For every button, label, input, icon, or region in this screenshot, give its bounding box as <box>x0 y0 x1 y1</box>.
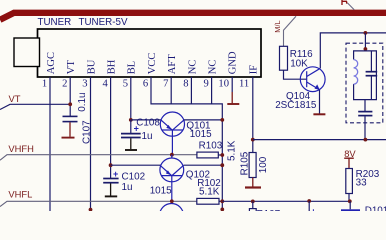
wire pin6 VCC rail <box>151 77 222 211</box>
svg-text:1015: 1015 <box>150 186 172 197</box>
wire pin2 VT down to C107 <box>69 77 71 116</box>
wire C102 node to Q102 emitter <box>111 164 161 166</box>
svg-text:BU: BU <box>86 59 97 74</box>
svg-text:2SC1815: 2SC1815 <box>275 100 317 111</box>
inductor L (tank coil) <box>354 60 358 85</box>
capacitor C? electrolytic (partial at edge) <box>309 201 316 217</box>
svg-text:9: 9 <box>204 78 209 89</box>
wire IF node to tank <box>253 139 386 141</box>
wire Q104 emitter down <box>319 90 321 114</box>
svg-text:C108: C108 <box>136 118 160 129</box>
svg-text:1015: 1015 <box>190 129 212 140</box>
wire pin7 AFT <box>170 77 172 104</box>
svg-text:TUNER-5V: TUNER-5V <box>79 17 128 28</box>
wire R105 to ground <box>252 178 254 187</box>
junction pin11 IF node <box>251 138 255 142</box>
junction pin3 bottom <box>89 208 93 212</box>
svg-text:+: + <box>311 207 316 212</box>
svg-text:C107: C107 <box>81 120 92 144</box>
ground pin10 <box>227 92 239 104</box>
transistor Q101 (PNP A1015) <box>160 112 184 155</box>
junction R102/rail <box>220 199 224 203</box>
ground C102 <box>105 195 117 197</box>
junction collector wire/tank <box>364 31 368 35</box>
svg-text:NC: NC <box>208 60 219 75</box>
junction tank/IF wire <box>364 138 368 142</box>
svg-text:+: + <box>113 169 118 179</box>
resistor R116 <box>280 46 288 70</box>
resistor R203 <box>346 169 353 194</box>
svg-text:6: 6 <box>143 78 148 89</box>
svg-text:D101: D101 <box>365 205 386 211</box>
wire node BL to Q101 emitter <box>131 119 161 121</box>
wire pin8 NC <box>190 77 192 104</box>
svg-text:BL: BL <box>127 61 138 74</box>
ground C108 <box>125 149 137 151</box>
svg-text:0.1u: 0.1u <box>77 92 88 111</box>
capacitor tank C <box>366 51 378 100</box>
junction R107/wire <box>251 200 255 204</box>
transistor Q104 (NPN 2SC1815) <box>300 67 325 92</box>
wire R116 to Q104 base <box>284 70 307 79</box>
resistor R103 <box>197 152 218 158</box>
wire pin5 BL down to node <box>130 77 132 120</box>
power 8V <box>344 148 356 169</box>
transistor Q103 (partial at edge) <box>160 204 184 228</box>
svg-text:5: 5 <box>123 78 128 89</box>
wire bottom net to D101 node <box>222 200 350 202</box>
ground C107 <box>62 137 75 139</box>
svg-text:11: 11 <box>239 78 249 89</box>
capacitor series C below tank <box>358 100 372 140</box>
capacitor C108 <box>121 120 141 149</box>
wire R103 to rail <box>218 154 222 156</box>
node VHFL wire <box>0 201 197 206</box>
wire pin10 GND stub <box>231 77 233 92</box>
wire diagonal top right <box>347 3 354 10</box>
svg-text:TUNER: TUNER <box>38 17 72 28</box>
node VT wire <box>0 104 70 109</box>
node VHFH wire <box>0 155 197 161</box>
junction pin4/C102/Q102 <box>109 163 113 167</box>
svg-text:5.1K: 5.1K <box>227 140 238 161</box>
wire Q102 collector side to rail <box>184 164 223 166</box>
wire pin1 AGC down <box>49 77 51 211</box>
svg-text:IF: IF <box>249 65 260 74</box>
svg-text:BH: BH <box>107 59 118 74</box>
junction C? electrolytic/wire <box>307 199 311 203</box>
tuner antenna connector box <box>14 38 40 67</box>
svg-text:VT: VT <box>9 93 21 104</box>
svg-text:VT: VT <box>66 60 77 75</box>
svg-text:R103: R103 <box>199 140 223 151</box>
junction Q102 base/VHFL <box>170 199 174 203</box>
transistor Q102 (PNP A1015) <box>160 155 184 202</box>
tank circuit frame T101 <box>354 51 377 100</box>
wire R102 to rail <box>219 200 222 202</box>
junction R103/rail <box>220 153 224 157</box>
wire Q101 collector to VCC rail <box>184 119 222 121</box>
wire into shield box <box>364 33 366 51</box>
svg-text:VCC: VCC <box>147 53 158 75</box>
wire Q104 collector up <box>320 33 386 68</box>
wire pin11 IF down <box>252 77 254 153</box>
capacitor C107 <box>63 116 78 136</box>
border frame red line <box>0 13 386 20</box>
wire pin4 BH down to C102 <box>110 77 112 179</box>
capacitor C102 <box>103 179 118 196</box>
svg-text:NC: NC <box>187 60 198 75</box>
svg-text:33: 33 <box>356 177 367 188</box>
junction pin2/VT <box>68 102 72 106</box>
wire R203 to node <box>348 194 350 202</box>
junction VCC rail/Q101 <box>220 118 224 122</box>
svg-text:3: 3 <box>82 78 87 89</box>
junction tank top <box>364 47 368 51</box>
svg-text:AGC: AGC <box>46 52 57 74</box>
tuner module U? main block <box>38 29 262 77</box>
svg-text:1u: 1u <box>122 182 133 193</box>
resistor R105 <box>249 153 256 178</box>
wire M/L to R116 <box>284 16 297 46</box>
svg-text:R107: R107 <box>257 209 281 211</box>
shield box (dashed) <box>346 43 383 123</box>
svg-text:10: 10 <box>218 78 229 89</box>
svg-text:VHFH: VHFH <box>8 143 34 154</box>
svg-text:GND: GND <box>228 51 239 74</box>
svg-text:7: 7 <box>163 78 168 89</box>
svg-text:VHFL: VHFL <box>8 188 32 199</box>
svg-text:100: 100 <box>258 156 269 173</box>
svg-text:AFT: AFT <box>167 54 178 74</box>
ground Q104 <box>313 113 325 115</box>
ground R105 <box>245 186 261 188</box>
junction R203/D101 <box>348 199 352 203</box>
svg-text:1: 1 <box>42 78 47 89</box>
wire pin3 BU down <box>90 77 92 211</box>
junction rail bottom <box>220 208 224 212</box>
resistor R102 <box>197 198 219 204</box>
svg-text:4: 4 <box>103 78 109 89</box>
svg-text:R105: R105 <box>239 151 250 175</box>
svg-text:8: 8 <box>183 78 188 89</box>
resistor R107 (partial at edge) <box>249 201 280 220</box>
svg-text:10K: 10K <box>290 58 308 69</box>
wire pin9 NC <box>211 77 213 104</box>
svg-text:8V: 8V <box>344 148 356 159</box>
svg-text:M/L: M/L <box>273 20 282 32</box>
net stub mark top right <box>342 0 347 5</box>
junction Q101 base/Q102 collector <box>170 153 174 157</box>
junction rail/Q102 <box>220 163 224 167</box>
diode D101 (partial at edge) <box>341 201 386 216</box>
svg-text:5.1K: 5.1K <box>199 186 220 197</box>
svg-text:2: 2 <box>62 78 67 89</box>
svg-text:1u: 1u <box>142 131 153 142</box>
svg-text:C102: C102 <box>122 172 146 183</box>
junction pin5/C108/Q101 <box>129 118 133 122</box>
